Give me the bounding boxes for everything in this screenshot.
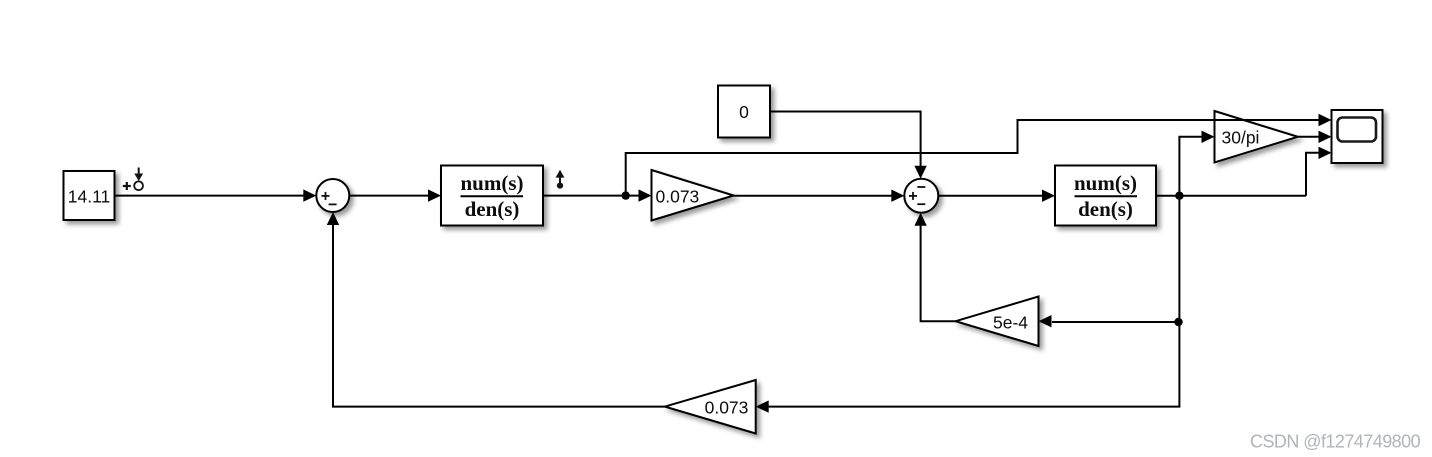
svg-text:0.073: 0.073	[656, 186, 700, 206]
svg-text:CSDN @f1274749800: CSDN @f1274749800	[1250, 432, 1421, 452]
svg-text:den(s): den(s)	[1078, 197, 1133, 221]
svg-text:num(s): num(s)	[460, 171, 523, 195]
svg-text:num(s): num(s)	[1074, 171, 1137, 195]
svg-text:0: 0	[739, 102, 749, 122]
svg-text:14.11: 14.11	[68, 186, 111, 206]
svg-text:den(s): den(s)	[465, 197, 520, 221]
svg-text:0.073: 0.073	[705, 397, 749, 417]
svg-text:30/pi: 30/pi	[1222, 127, 1260, 147]
svg-text:5e-4: 5e-4	[993, 312, 1028, 332]
